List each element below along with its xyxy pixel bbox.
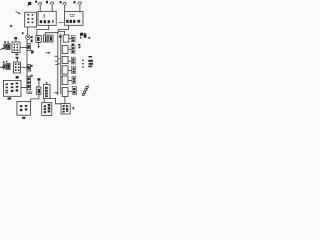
numeral right of bus drop xyxy=(59,35,61,37)
bus node box N2 xyxy=(27,65,31,71)
tick on bus y64.5 xyxy=(55,63,58,65)
label box 1 xyxy=(71,36,75,42)
stub bus to rect5 xyxy=(61,76,62,78)
B1 inner glyph column xyxy=(45,87,48,89)
dot on dash stub y52.8 xyxy=(48,52,50,54)
dot on dash stub y92.8 xyxy=(56,92,57,94)
D2 inner col2 xyxy=(25,105,28,107)
left cluster 2 arrow xyxy=(0,66,3,69)
M2 inner dots xyxy=(15,63,17,65)
main bus vertical wire xyxy=(26,39,28,94)
right column rect row4 xyxy=(62,66,68,74)
leader line above M2 xyxy=(16,59,18,62)
wire from T1 bottom to block R1 xyxy=(37,25,49,35)
block R5 outline xyxy=(36,87,41,94)
antenna input 1 lead wire xyxy=(39,6,41,12)
BA inner glyph col2 xyxy=(48,104,51,107)
processor block B1 outline xyxy=(44,85,50,99)
label box 5 xyxy=(72,76,76,83)
antenna input 3 loop xyxy=(63,3,66,6)
legend box A outline xyxy=(25,12,37,27)
wire D to bus xyxy=(21,86,27,88)
stub rect4 to label4 xyxy=(68,69,72,71)
R1 inner glyph xyxy=(37,37,39,41)
small block S1a xyxy=(4,44,7,49)
arrowhead of leader to box A xyxy=(18,12,20,14)
T1 inner bottom row glyphs xyxy=(40,20,42,23)
memory block M1 outline xyxy=(12,42,20,53)
tuner block T2 outline xyxy=(65,12,83,26)
ref numeral 30 above box A xyxy=(27,2,31,6)
small block S2b xyxy=(7,63,10,69)
dashes below N3 xyxy=(28,91,33,94)
left cluster 1 arrow xyxy=(0,48,3,50)
junction circle on bus xyxy=(26,35,30,39)
right annotation dot xyxy=(88,37,90,39)
antenna input 1 loop xyxy=(38,3,41,6)
numeral right of N3 xyxy=(31,75,33,77)
memory block M2 outline xyxy=(13,62,20,73)
wire from box A bottom to bus xyxy=(27,27,29,35)
numeral right of N2 xyxy=(31,65,33,67)
numeral below label box 1 xyxy=(72,44,75,46)
right column rect row3 xyxy=(62,56,68,63)
leader arrow to box A xyxy=(16,11,20,14)
numeral below M1 xyxy=(15,54,18,56)
numeral above M2 xyxy=(16,57,19,59)
left data bus vertical xyxy=(57,33,59,95)
T1 inner dots xyxy=(44,15,45,16)
right annotation mark mid xyxy=(78,44,80,48)
right column rect row5 xyxy=(62,76,68,84)
ref numeral near input4 xyxy=(74,1,76,3)
antenna input 2 lead wire xyxy=(51,5,53,12)
block R3 outline xyxy=(49,35,53,42)
wire from T2 bottom down xyxy=(58,25,68,32)
right column rect row6 xyxy=(62,88,68,97)
B3 inner col2 xyxy=(66,105,68,107)
dot between buses y58.7 xyxy=(58,58,59,59)
floating numeral left mid xyxy=(10,25,12,27)
S2a inner xyxy=(4,65,6,68)
output block BA outline xyxy=(42,103,52,116)
antenna input 4 lead wire xyxy=(79,5,81,12)
dot right of B3 xyxy=(73,107,75,109)
arrow stub below R1 xyxy=(38,42,40,45)
wire rect6 to bottom block B3 xyxy=(64,96,66,103)
tick on bus y56.4 xyxy=(55,55,58,57)
label box 2 xyxy=(71,46,75,53)
dot between buses y63.6 xyxy=(58,63,59,64)
numeral above R5 xyxy=(37,78,40,80)
bus node box N1 xyxy=(27,44,31,51)
block R1 outline xyxy=(36,36,41,43)
block R2 outline xyxy=(43,35,47,42)
R5 inner glyph xyxy=(38,89,40,93)
stub rect5 to label5 xyxy=(68,80,72,82)
tuner block T1 outline xyxy=(38,11,56,25)
cluster1 numerals xyxy=(4,41,6,43)
T2 inner bottom row glyphs xyxy=(66,20,68,23)
BA inner glyph col1 xyxy=(44,105,46,107)
dash-dot stub y92.8 xyxy=(54,92,56,94)
ref numeral near input1 xyxy=(35,1,37,3)
right annotation numeral cluster xyxy=(80,33,87,39)
antenna input 3 lead wire xyxy=(64,6,66,13)
ref numeral right of N1 xyxy=(31,40,33,42)
ref numeral near input2 xyxy=(46,1,48,4)
cluster2 arrowhead xyxy=(2,67,4,69)
control box D outline xyxy=(3,80,21,96)
leader line above R5 xyxy=(38,81,40,87)
N3 inner marks xyxy=(28,78,30,81)
stub rect1 to label1 xyxy=(69,37,72,39)
cluster1 arrowhead xyxy=(2,48,4,50)
dash-dot stub y52.8 xyxy=(46,52,48,54)
D inner col3 xyxy=(16,83,19,85)
numeral below M2 / above D xyxy=(16,76,19,79)
label box 6 xyxy=(72,87,76,95)
R2 inner glyph xyxy=(45,36,47,41)
ellipsis dots between tuners xyxy=(59,22,60,23)
numerals above R1 row xyxy=(31,36,33,38)
small block S2a xyxy=(3,64,6,69)
wire M1 to bus xyxy=(20,47,27,49)
right column rect row2 xyxy=(62,46,68,54)
numeral below D xyxy=(8,97,12,99)
cluster2 numerals xyxy=(3,61,5,63)
wire R5 to box D2 xyxy=(31,94,39,101)
stacked label right xyxy=(89,56,93,57)
ref numeral left of bus xyxy=(22,32,24,34)
dot stub near bus y82.8 xyxy=(46,82,47,84)
B3 inner col1 xyxy=(63,105,65,107)
stub rect6 to label6 xyxy=(68,90,72,92)
ref numeral near input3 xyxy=(60,1,62,3)
T2 inner dots xyxy=(70,14,71,15)
D inner col2 xyxy=(11,83,14,85)
diagonal squiggle annotation xyxy=(82,85,88,96)
numeral above M1 xyxy=(14,37,17,39)
stub rect3 to label3 xyxy=(68,60,71,62)
R3 inner glyph xyxy=(50,36,52,40)
wire feeding rect row1 xyxy=(58,31,64,35)
stub rect2 to label2 xyxy=(68,49,71,51)
numeral below D2 xyxy=(22,117,25,119)
small block S1b xyxy=(7,44,10,50)
label box 3 xyxy=(71,57,75,64)
output block D2 outline xyxy=(17,101,31,115)
bus node box N3 xyxy=(27,76,31,89)
right column rect row1 xyxy=(63,35,69,42)
box A inner text col1 xyxy=(28,14,30,16)
antenna input 4 loop xyxy=(78,2,81,5)
label box 4 xyxy=(72,66,76,73)
S2b inner xyxy=(8,64,10,68)
S1a inner xyxy=(4,45,6,48)
arrowhead below R1 xyxy=(37,46,39,48)
wire B1 to BA xyxy=(43,98,45,102)
output block B3 outline xyxy=(61,104,70,114)
box A inner text col2 xyxy=(32,14,34,16)
M1 inner dots xyxy=(14,44,16,46)
leader line above M1 xyxy=(15,39,17,42)
N2 inner dot xyxy=(28,66,30,70)
vertical ellipsis dots xyxy=(82,60,83,61)
dark center of junction circle xyxy=(27,36,29,38)
tick on bus y61 xyxy=(55,60,58,62)
wire M2 to bus xyxy=(21,66,27,68)
N1 inner dot xyxy=(28,45,30,49)
stub bus to rect4 xyxy=(61,69,62,71)
D inner col1 xyxy=(6,83,8,85)
wire feeding block R2 and buses xyxy=(45,33,58,35)
D2 inner col1 xyxy=(20,105,23,107)
right data bus vertical xyxy=(60,34,62,95)
S1b inner xyxy=(8,45,10,49)
numeral mid-left below R1 xyxy=(31,50,34,53)
antenna input 2 loop xyxy=(50,2,53,5)
wire B1 to B3 xyxy=(50,98,61,103)
